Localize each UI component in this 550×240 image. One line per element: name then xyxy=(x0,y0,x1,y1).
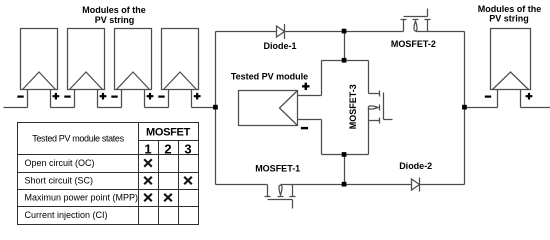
svg-text:3: 3 xyxy=(184,141,191,156)
svg-text:Current injection (CI): Current injection (CI) xyxy=(25,210,108,220)
svg-text:Diode-2: Diode-2 xyxy=(399,161,432,171)
svg-text:Maximun power point (MPP): Maximun power point (MPP) xyxy=(25,193,139,203)
svg-text:Open circuit (OC): Open circuit (OC) xyxy=(25,158,95,168)
svg-text:PV string: PV string xyxy=(489,13,529,23)
svg-text:PV string: PV string xyxy=(95,15,135,25)
svg-text:Modules of the: Modules of the xyxy=(82,5,146,15)
svg-text:Diode-1: Diode-1 xyxy=(263,41,296,51)
svg-text:1: 1 xyxy=(144,141,151,156)
svg-text:2: 2 xyxy=(164,141,171,156)
svg-text:Tested PV module states: Tested PV module states xyxy=(32,134,124,144)
svg-text:MOSFET-2: MOSFET-2 xyxy=(391,39,436,49)
svg-text:Short circuit (SC): Short circuit (SC) xyxy=(25,176,94,186)
svg-text:Tested PV module: Tested PV module xyxy=(231,72,308,82)
svg-text:MOSFET: MOSFET xyxy=(146,126,191,138)
svg-text:MOSFET-3: MOSFET-3 xyxy=(348,84,358,129)
svg-text:MOSFET-1: MOSFET-1 xyxy=(255,164,300,174)
